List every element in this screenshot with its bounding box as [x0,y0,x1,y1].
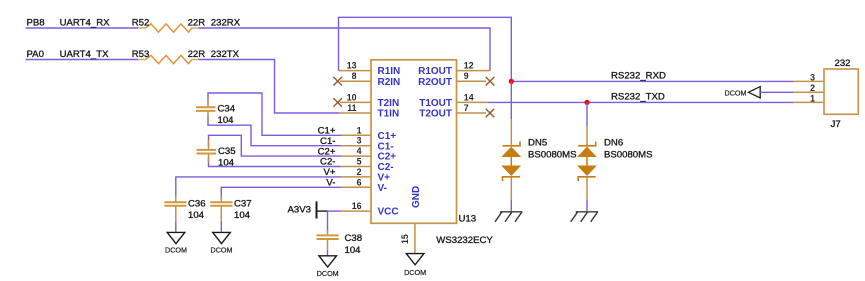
svg-text:T2OUT: T2OUT [419,109,452,120]
svg-text:R1IN: R1IN [378,66,401,77]
svg-text:PA0: PA0 [27,49,44,60]
ground DCOM under C36 [165,232,187,254]
svg-text:RS232_RXD: RS232_RXD [611,71,666,82]
wire R1IN to RS232_RXD net [339,17,512,81]
capacitor C34 [196,98,236,126]
svg-text:C1+: C1+ [378,131,397,142]
svg-text:GND: GND [411,186,422,208]
svg-text:4: 4 [357,146,362,156]
ground DCOM under C38 [317,256,339,278]
svg-text:R52: R52 [132,18,150,29]
wire 232RX to R1OUT pin 12 [199,28,491,71]
wire 232TX to T1IN pin 11 [199,60,339,114]
svg-text:7: 7 [464,103,469,113]
svg-text:R2OUT: R2OUT [418,77,452,88]
pin 5 C2- [340,157,394,174]
svg-text:R1OUT: R1OUT [418,66,452,77]
ground DCOM under pin 15 [404,254,426,277]
svg-text:BS0080MS: BS0080MS [604,150,653,161]
svg-text:5: 5 [357,157,362,167]
pin 3 C1- [340,136,394,153]
wire C38 to ground [327,250,329,256]
svg-text:R2IN: R2IN [378,77,401,88]
pin 16 VCC [340,201,399,218]
pin 15 GND [400,186,422,254]
wire C34 top to C1+ pin 1 [208,93,341,135]
svg-text:22R: 22R [188,49,206,60]
wire C35 top to C2+ pin 4 [209,135,341,156]
capacitor C37 [210,196,251,221]
pin 13 R1IN [339,61,401,78]
svg-text:C2-: C2- [378,162,394,173]
wire RS232_TXD from T1OUT pin 14 to J7 pin 1 [487,101,793,103]
svg-text:2: 2 [357,167,362,177]
capacitor C35 [197,140,236,169]
svg-text:U13: U13 [459,214,477,225]
svg-text:A3V3: A3V3 [288,205,311,216]
pin 3 of J7 [793,72,824,82]
svg-text:2: 2 [810,83,815,93]
pin 4 C2+ [340,146,396,163]
svg-text:V-: V- [378,183,387,194]
earth ground under DN5 [495,212,523,222]
svg-text:C38: C38 [345,233,363,244]
wire C34 bottom to C1- pin 3 [208,115,341,146]
pin 9 R2OUT (no connect) [418,71,494,88]
wire RS232_RXD to J7 pin 3 [511,80,793,82]
earth ground under DN6 [571,212,599,222]
wire V+ pin 2 to C36 [176,177,341,198]
svg-text:T1OUT: T1OUT [419,98,452,109]
svg-text:11: 11 [347,103,356,113]
svg-text:VCC: VCC [378,207,399,218]
wire V- pin 6 to C37 [221,187,340,198]
svg-text:UART4_TX: UART4_TX [60,49,109,60]
pin 2 V+ [340,167,390,184]
pin 2 of J7 [793,83,824,93]
pin 7 T2OUT (no connect) [419,103,494,120]
pin 10 T2IN (no connect) [333,92,399,109]
wire RXD junction to DN5 [510,81,512,146]
pin 14 T1OUT [419,92,487,109]
svg-text:9: 9 [464,71,469,81]
junction DN5 node [509,79,514,84]
svg-text:104: 104 [218,158,235,169]
wire A3V3 to C38 [327,211,329,232]
wire TXD junction to DN6 [586,102,588,146]
svg-text:3: 3 [357,136,362,146]
svg-text:14: 14 [464,92,474,102]
svg-text:104: 104 [188,210,205,221]
pin 12 R1OUT [418,61,490,78]
svg-text:C34: C34 [218,104,236,115]
svg-text:WS3232ECY: WS3232ECY [436,235,493,246]
svg-text:DCOM: DCOM [404,268,426,277]
pin 1 of J7 [793,93,824,103]
svg-text:232TX: 232TX [211,49,240,60]
resistor R52 [132,18,206,32]
pin 6 V- [340,177,387,194]
svg-text:C36: C36 [188,198,206,209]
svg-text:232RX: 232RX [211,18,241,29]
wire net 232RX from PB8 to R52 [26,27,139,29]
svg-text:DN5: DN5 [528,137,547,148]
svg-text:1: 1 [357,125,362,135]
svg-text:104: 104 [234,210,251,221]
resistor R53 [132,49,206,64]
svg-text:13: 13 [347,61,357,71]
pin 11 T1IN [339,103,399,120]
wire net 232TX from PA0 to R53 [26,59,139,61]
svg-text:8: 8 [352,71,357,81]
svg-text:C35: C35 [218,146,236,157]
svg-text:C2+: C2+ [378,152,397,163]
wire C36 to ground [175,221,177,232]
wire DN6 to earth ground [586,177,588,212]
svg-text:PB8: PB8 [27,18,45,29]
junction DN6 node [584,100,589,105]
svg-text:232: 232 [835,58,851,69]
connector J7 [824,58,858,130]
svg-text:DCOM: DCOM [725,88,747,97]
pin 8 R2IN (no connect) [333,71,400,88]
svg-text:C1-: C1- [378,141,394,152]
svg-text:RS232_TXD: RS232_TXD [611,92,665,103]
svg-text:T1IN: T1IN [378,109,400,120]
svg-text:16: 16 [352,201,362,211]
svg-text:15: 15 [400,234,410,244]
svg-text:J7: J7 [831,119,841,130]
svg-text:C37: C37 [234,198,252,209]
svg-text:DN6: DN6 [604,137,623,148]
wire C35 bottom to C2- pin 5 [209,157,341,167]
svg-text:UART4_RX: UART4_RX [60,18,111,29]
capacitor C36 [164,196,205,221]
svg-text:DCOM: DCOM [317,269,339,278]
svg-text:DCOM: DCOM [165,246,187,255]
wire A3V3 to VCC pin 16 [328,210,341,212]
svg-text:10: 10 [347,92,357,102]
svg-text:1: 1 [810,93,815,103]
svg-text:T2IN: T2IN [378,98,400,109]
power port DCOM on J7 pin 2 [725,87,761,98]
svg-text:DCOM: DCOM [211,246,233,255]
svg-text:104: 104 [345,245,362,256]
svg-text:6: 6 [357,177,362,187]
diode DN5 (BS0080MS dual zener) [503,137,577,181]
svg-text:V+: V+ [378,173,391,184]
svg-text:104: 104 [218,115,235,126]
wire C37 to ground [220,221,222,232]
pin 1 C1+ [340,125,396,142]
svg-text:12: 12 [464,61,474,71]
capacitor C38 [317,230,363,256]
power port A3V3 [288,201,328,218]
svg-text:3: 3 [810,72,815,82]
op-amp U13 body (WS3232ECY transceiver) [371,60,493,246]
svg-text:R53: R53 [132,49,150,60]
wire DN5 to earth ground [510,177,512,212]
svg-text:22R: 22R [188,18,206,29]
diode DN6 (BS0080MS dual zener) [578,137,652,181]
wire DCOM to J7 pin 2 [760,91,793,93]
ground DCOM under C37 [211,232,233,254]
svg-text:BS0080MS: BS0080MS [528,150,577,161]
